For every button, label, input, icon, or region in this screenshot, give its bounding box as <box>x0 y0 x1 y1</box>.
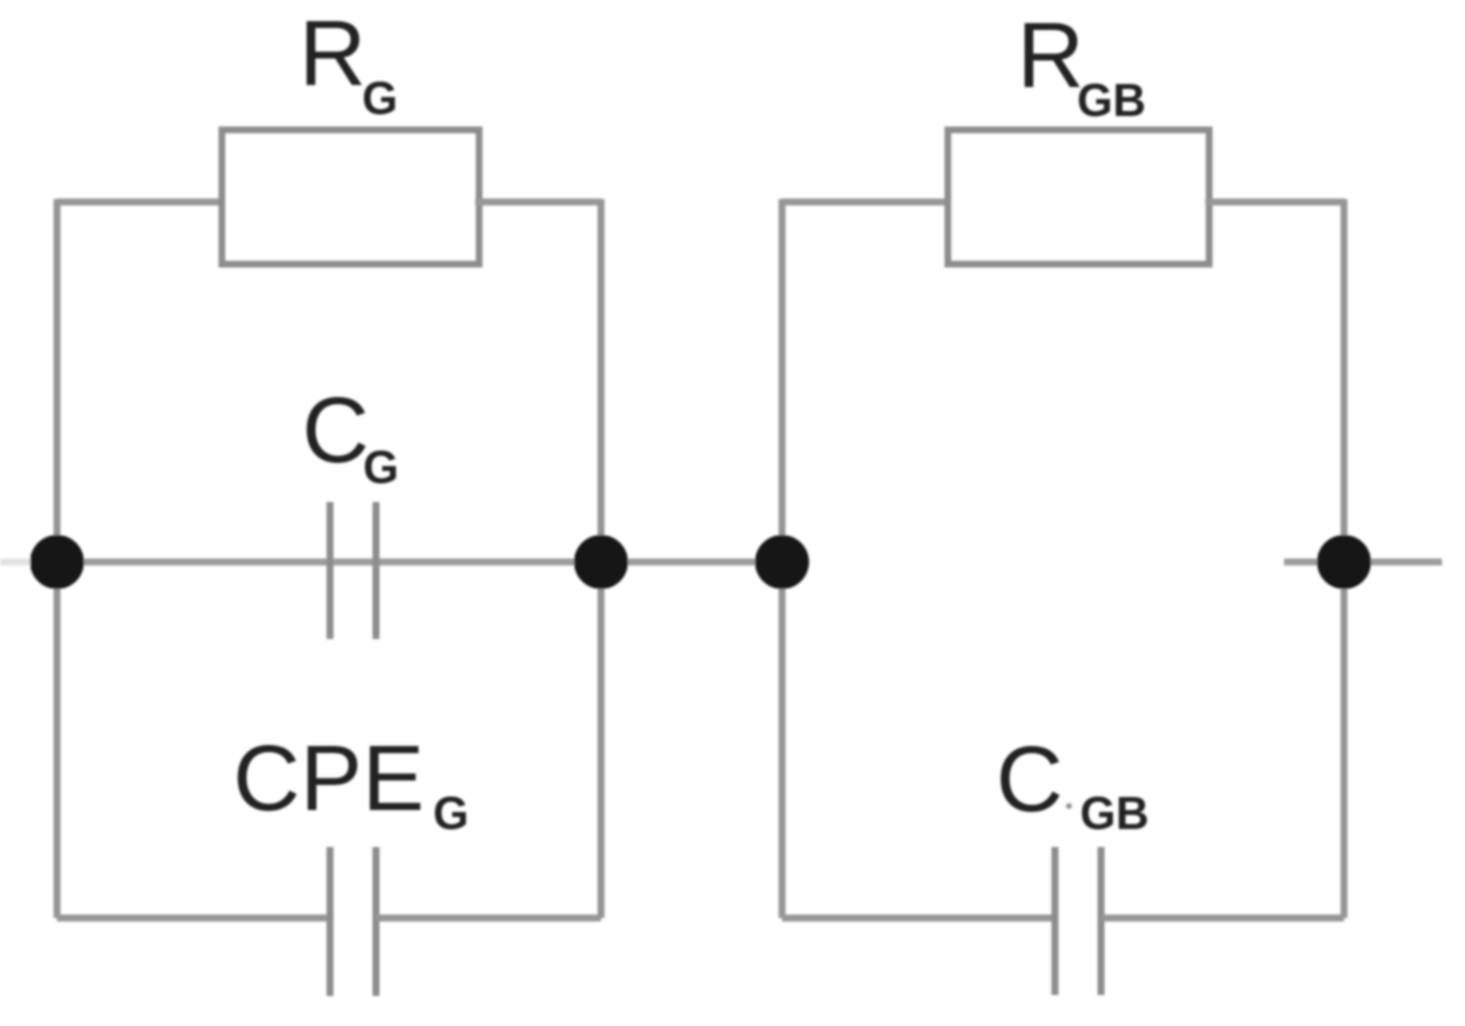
wire RG to right vertical <box>475 199 601 206</box>
wire link between blocks <box>601 559 782 566</box>
resistor RG <box>222 130 479 264</box>
svg-text:R: R <box>299 1 366 105</box>
svg-text:C: C <box>302 378 369 482</box>
wire right block right vertical <box>1341 199 1348 918</box>
svg-text:G: G <box>363 441 399 493</box>
CPE CPEG plate 1 <box>327 847 334 996</box>
node B dot <box>574 535 628 589</box>
svg-text:C: C <box>996 727 1063 831</box>
CPE CPEG plate 2 <box>373 847 380 996</box>
svg-text:G: G <box>362 72 398 124</box>
wire middle horizontal CG branch <box>57 559 601 566</box>
wire bottom right segment from CPE <box>376 915 601 922</box>
label CGB dot <box>1066 803 1072 809</box>
resistor RGB <box>948 130 1209 264</box>
wire bottom left segment to CGB <box>782 915 1055 922</box>
wire left vertical <box>54 199 61 918</box>
capacitor CGB plate 1 <box>1052 847 1059 995</box>
svg-text:G: G <box>433 787 469 839</box>
wire right block left-top stub <box>782 199 952 206</box>
wire left block right vertical <box>598 199 605 918</box>
wire faint cropped stub at left edge <box>0 559 30 566</box>
capacitor CG plate 2 <box>373 502 380 639</box>
wire bottom right segment from CGB <box>1101 915 1344 922</box>
wire RGB to right vertical <box>1205 199 1344 206</box>
capacitor CGB plate 2 <box>1098 847 1105 995</box>
svg-text:CPE: CPE <box>233 726 424 830</box>
svg-text:R: R <box>1017 3 1084 107</box>
wire right block left vertical <box>779 199 786 918</box>
svg-text:GB: GB <box>1077 74 1146 126</box>
wire bottom left segment to CPE <box>57 915 330 922</box>
node C dot <box>755 535 809 589</box>
wire left-top stub to RG <box>57 199 226 206</box>
node D dot <box>1317 535 1371 589</box>
wire terminal stub at right node <box>1284 559 1442 566</box>
node A dot <box>30 535 84 589</box>
svg-text:GB: GB <box>1080 787 1149 839</box>
capacitor CG plate 1 <box>327 502 334 639</box>
